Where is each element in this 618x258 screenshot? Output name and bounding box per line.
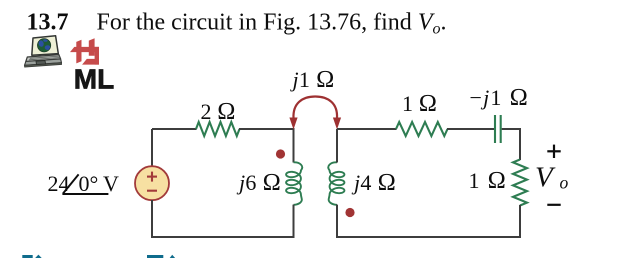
resistor 2Ω [196,122,240,136]
inductor j4Ω [328,162,344,205]
wire: top-left horizontal (source to 2Ω) [152,128,197,130]
resistor 1Ω right vertical [513,160,527,206]
dot: j6Ω polarity [276,149,285,158]
value label j6Ω [236,169,281,196]
wire: right loop top left segment [337,128,397,130]
wire: left loop bottom [151,236,295,238]
svg-text:24: 24 [48,171,70,196]
wire: right loop left vertical top [336,129,338,163]
svg-text:V: V [535,162,556,194]
value label j4Ω [351,169,396,196]
problem statement [97,10,447,38]
label: - polarity of Vo [547,204,560,206]
svg-text:j6 Ω: j6 Ω [236,169,281,196]
svg-text:o: o [560,173,569,193]
figure caption fragment: top of "7" in 13.76 (cut off) [147,255,163,258]
wire: below j4Ω [336,205,338,238]
resistor 1Ω top [396,122,448,136]
figure caption fragment: top of "6" in 13.76 (cut off) [170,255,175,258]
capacitor -j1Ω [495,115,501,143]
figure caption fragment: letter top (cut off) [35,255,42,258]
wire: capacitor to top-right corner [502,129,520,160]
svg-text:13.7: 13.7 [27,10,69,36]
svg-text:For the circuit in Fig. 13.76,: For the circuit in Fig. 13.76, find Vo. [97,10,447,38]
wire: right vertical bottom + right loop bottom [336,205,520,237]
svg-text:j4 Ω: j4 Ω [351,169,396,196]
wire: source top lead [151,129,153,166]
value label 1Ω right [469,167,508,194]
value label j1Ω [290,66,335,93]
svg-text:1 Ω: 1 Ω [402,90,437,117]
inductor j6Ω [286,162,302,205]
icon: red hash mark [70,38,99,64]
icon label ML [74,63,114,94]
wire: below j6Ω [293,205,295,238]
voltage source 24∠0° V [135,166,169,200]
wire: 1Ω to capacitor [447,128,494,130]
problem number 13.7 [27,10,69,36]
label: Vo [535,162,569,194]
icon: laptop computer with globe [25,36,62,67]
figure caption fragment: top of "F" in Figure (cut off) [22,255,32,258]
svg-text:−j1 Ω: −j1 Ω [470,84,530,111]
mutual inductance arc j1Ω [289,97,341,130]
wire: 2Ω to coil node, down to j6Ω [239,129,294,163]
svg-text:ML: ML [74,63,114,94]
wire: source bottom lead [151,200,153,237]
source label 24∠0° V [48,171,120,196]
svg-text:j1 Ω: j1 Ω [290,66,335,93]
svg-text:2 Ω: 2 Ω [201,98,236,125]
svg-text:V: V [103,171,119,196]
value label 2Ω [201,98,236,125]
svg-text:0°: 0° [79,171,99,196]
value label 1Ω top [402,90,437,117]
value label -j1Ω [470,84,530,111]
dot: j4Ω polarity [345,208,354,217]
svg-text:1 Ω: 1 Ω [469,167,508,194]
label: + polarity of Vo [547,145,560,158]
